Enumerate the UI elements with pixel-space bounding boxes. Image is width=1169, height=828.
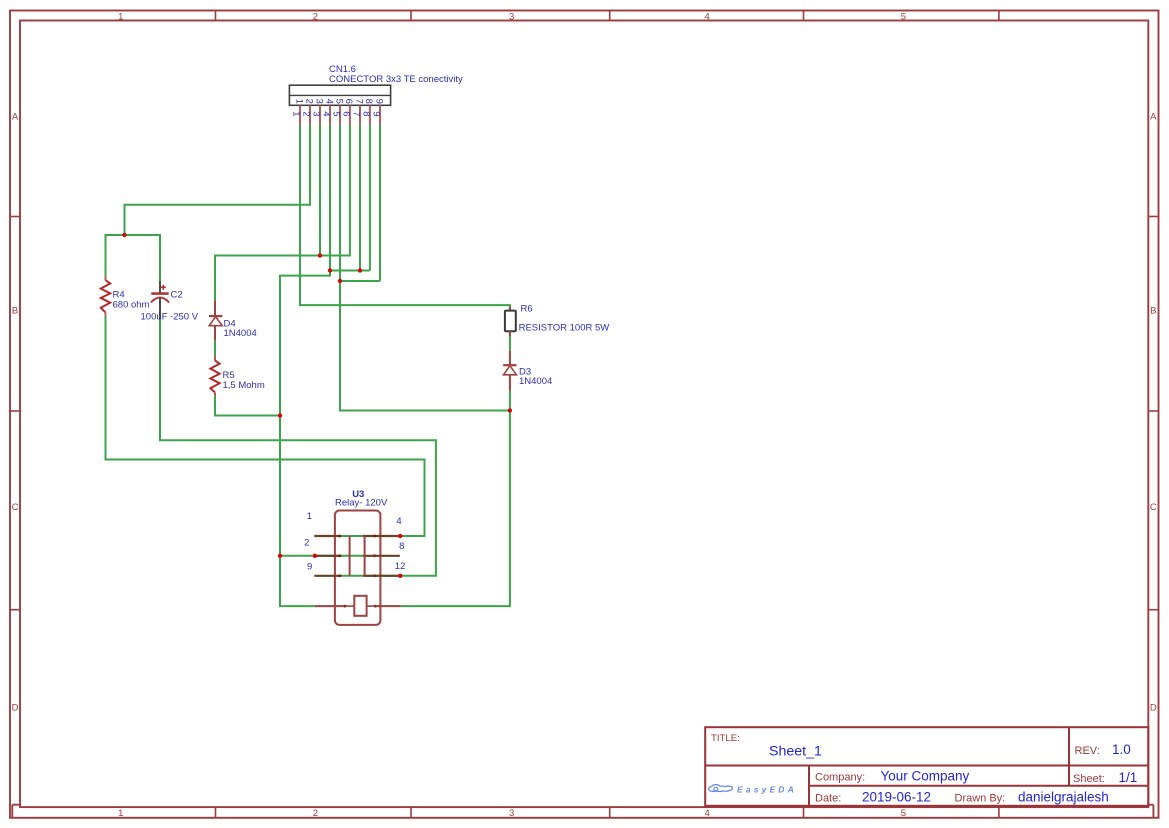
EasyEDA logo xyxy=(709,784,797,794)
svg-text:A: A xyxy=(1150,112,1157,123)
svg-text:Sheet:: Sheet: xyxy=(1073,773,1105,785)
wire pin8 down xyxy=(369,125,371,271)
wire pin5 to pin9 xyxy=(340,280,380,282)
svg-text:2019-06-12: 2019-06-12 xyxy=(862,790,931,805)
svg-text:2: 2 xyxy=(304,538,309,549)
svg-text:5: 5 xyxy=(901,11,906,22)
svg-text:9: 9 xyxy=(307,562,312,573)
ruler ticks left xyxy=(10,217,20,610)
junction dot relay pin12 xyxy=(398,574,402,578)
svg-text:1: 1 xyxy=(290,111,301,116)
diode D3 labels xyxy=(519,366,552,387)
svg-text:C: C xyxy=(12,502,19,513)
svg-text:1: 1 xyxy=(118,808,123,819)
svg-text:1: 1 xyxy=(307,511,312,522)
svg-text:3: 3 xyxy=(509,808,514,819)
resistor R4 xyxy=(101,276,110,316)
wire pin2 to R4/C2 top xyxy=(125,125,311,235)
svg-text:100uF -250 V: 100uF -250 V xyxy=(141,311,199,322)
svg-text:3: 3 xyxy=(310,111,321,116)
svg-text:Company:: Company: xyxy=(815,771,865,783)
svg-text:8: 8 xyxy=(399,541,404,552)
svg-text:D: D xyxy=(1150,703,1157,714)
svg-text:7: 7 xyxy=(353,99,364,104)
svg-text:7: 7 xyxy=(350,111,361,116)
svg-text:RESISTOR 100R 5W: RESISTOR 100R 5W xyxy=(519,322,610,333)
ruler letters left xyxy=(12,112,19,714)
relay contact pivots xyxy=(338,535,376,578)
wire pin3 down xyxy=(319,125,321,256)
svg-text:3: 3 xyxy=(313,99,324,104)
capacitor C2 labels xyxy=(141,289,199,322)
svg-text:680 ohm: 680 ohm xyxy=(113,300,150,311)
relay contact row pins 2/8 xyxy=(314,555,400,557)
connector pin 2 xyxy=(300,99,314,125)
wire pin1 to R6 xyxy=(300,125,510,308)
wire D4 to R5 xyxy=(214,340,216,356)
relay linkage bars xyxy=(350,536,365,576)
junction dot D3 bottom xyxy=(508,408,512,412)
connector pin 4 xyxy=(320,99,334,125)
svg-text:2: 2 xyxy=(313,808,318,819)
ruler numbers bottom xyxy=(118,808,906,819)
junction dot pin5 xyxy=(338,279,342,283)
junction dot pin2/R4C2 xyxy=(122,233,126,237)
wire pin6 to D4 xyxy=(215,125,350,301)
connector pin 9 xyxy=(370,99,384,125)
svg-text:Sheet_1: Sheet_1 xyxy=(769,743,822,759)
diode D3 xyxy=(503,351,516,391)
svg-text:1.0: 1.0 xyxy=(1112,742,1131,757)
svg-text:1: 1 xyxy=(118,11,123,22)
svg-text:EasyEDA: EasyEDA xyxy=(737,784,797,794)
connector pin 5 xyxy=(330,99,344,125)
wire D3 junction to relay coil right xyxy=(401,411,510,607)
svg-text:R6: R6 xyxy=(521,304,533,315)
ruler ticks bottom xyxy=(216,807,999,818)
junction dot pin7 xyxy=(358,268,362,272)
svg-text:1: 1 xyxy=(293,99,304,104)
svg-text:8: 8 xyxy=(363,99,374,104)
wire pin4 to relay coil left xyxy=(280,271,330,607)
junction dot relay pin2 xyxy=(313,554,317,558)
resistor R6 xyxy=(505,307,516,337)
svg-text:2: 2 xyxy=(303,99,314,104)
svg-text:TITLE:: TITLE: xyxy=(711,733,740,744)
svg-text:4: 4 xyxy=(323,99,334,104)
relay coil xyxy=(315,596,401,616)
wire C2 top xyxy=(159,234,161,281)
junction dot relay pin2 left xyxy=(278,554,282,558)
svg-text:4: 4 xyxy=(704,11,709,22)
svg-text:A: A xyxy=(12,112,19,123)
svg-text:B: B xyxy=(12,306,18,317)
diode D4 labels xyxy=(224,318,257,339)
svg-text:1N4004: 1N4004 xyxy=(519,376,552,387)
svg-text:9: 9 xyxy=(370,111,381,116)
svg-text:2: 2 xyxy=(313,11,318,22)
svg-text:1N4004: 1N4004 xyxy=(224,328,257,339)
connector pin 7 xyxy=(350,99,364,125)
resistor R6 labels xyxy=(519,304,610,334)
wire pin5 to D3 bottom xyxy=(340,125,510,411)
svg-text:8: 8 xyxy=(360,111,371,116)
ruler ticks top xyxy=(216,11,999,21)
ruler numbers top xyxy=(118,11,906,22)
svg-text:3: 3 xyxy=(509,11,514,22)
resistor R4 labels xyxy=(113,289,150,310)
connector pin 6 xyxy=(340,99,354,125)
wire relay row2 inner xyxy=(315,555,365,557)
svg-text:Relay- 120V: Relay- 120V xyxy=(335,497,388,508)
svg-text:4: 4 xyxy=(396,516,401,527)
svg-text:danielgrajalesh: danielgrajalesh xyxy=(1018,790,1109,805)
wire pin4 to pin8 xyxy=(330,270,370,272)
svg-text:5: 5 xyxy=(330,111,341,116)
wire R6 to D3 xyxy=(509,335,511,351)
svg-text:REV:: REV: xyxy=(1075,745,1100,757)
svg-text:Drawn By:: Drawn By: xyxy=(955,793,1006,805)
svg-text:9: 9 xyxy=(373,99,384,104)
svg-text:D: D xyxy=(12,703,19,714)
connector pin 1 xyxy=(290,99,304,125)
svg-text:6: 6 xyxy=(340,111,351,116)
wire C2 bottom to relay pin12 xyxy=(160,319,436,576)
wire pin7 down xyxy=(359,125,361,271)
relay contact row pins 1/4 xyxy=(314,535,400,537)
relay U3 body xyxy=(335,511,381,625)
svg-text:5: 5 xyxy=(333,99,344,104)
svg-text:12: 12 xyxy=(395,561,406,572)
wire pin4 down xyxy=(329,125,331,271)
junction dot pin4 xyxy=(328,268,332,272)
wire pin9 down xyxy=(379,125,381,281)
ruler ticks right xyxy=(1148,217,1158,610)
svg-text:5: 5 xyxy=(901,808,906,819)
wire R4/C2 top bus xyxy=(106,234,161,236)
svg-text:6: 6 xyxy=(343,99,354,104)
wire relay row3 inner xyxy=(340,575,401,577)
wire R5 bottom xyxy=(215,395,280,415)
title block frame xyxy=(705,727,1148,806)
svg-text:B: B xyxy=(1150,306,1156,317)
ruler letters right xyxy=(1150,112,1157,714)
relay contact row pins 9/12 xyxy=(314,575,400,577)
svg-text:2: 2 xyxy=(300,111,311,116)
svg-text:1/1: 1/1 xyxy=(1119,770,1138,785)
connector pin 3 xyxy=(310,99,324,125)
wire R4 top xyxy=(105,234,107,276)
svg-text:C2: C2 xyxy=(171,289,183,300)
junction dot pin3 xyxy=(318,253,322,257)
wire relay pin2 left xyxy=(280,555,315,557)
svg-text:1,5 Mohm: 1,5 Mohm xyxy=(223,380,265,391)
svg-text:CONECTOR 3x3 TE conectivity: CONECTOR 3x3 TE conectivity xyxy=(329,74,463,85)
svg-text:C: C xyxy=(1150,502,1157,513)
resistor R5 labels xyxy=(223,370,265,391)
connector CN1.6 body xyxy=(289,85,390,105)
svg-text:4: 4 xyxy=(704,808,709,819)
wire D3 bottom xyxy=(509,391,511,411)
wire relay row1 inner xyxy=(340,535,401,537)
diode D4 xyxy=(209,301,222,340)
svg-text:Date:: Date: xyxy=(815,793,841,805)
wire R4 bottom to relay pin4 xyxy=(106,316,425,536)
svg-text:Your Company: Your Company xyxy=(881,768,970,783)
capacitor C2 xyxy=(151,281,169,319)
svg-text:4: 4 xyxy=(320,111,331,116)
junction dot R5 bottom xyxy=(278,413,282,417)
connector pin 8 xyxy=(360,99,374,125)
resistor R5 xyxy=(210,356,219,396)
junction dot relay pin4 xyxy=(398,534,402,538)
relay U3 labels xyxy=(335,489,388,508)
